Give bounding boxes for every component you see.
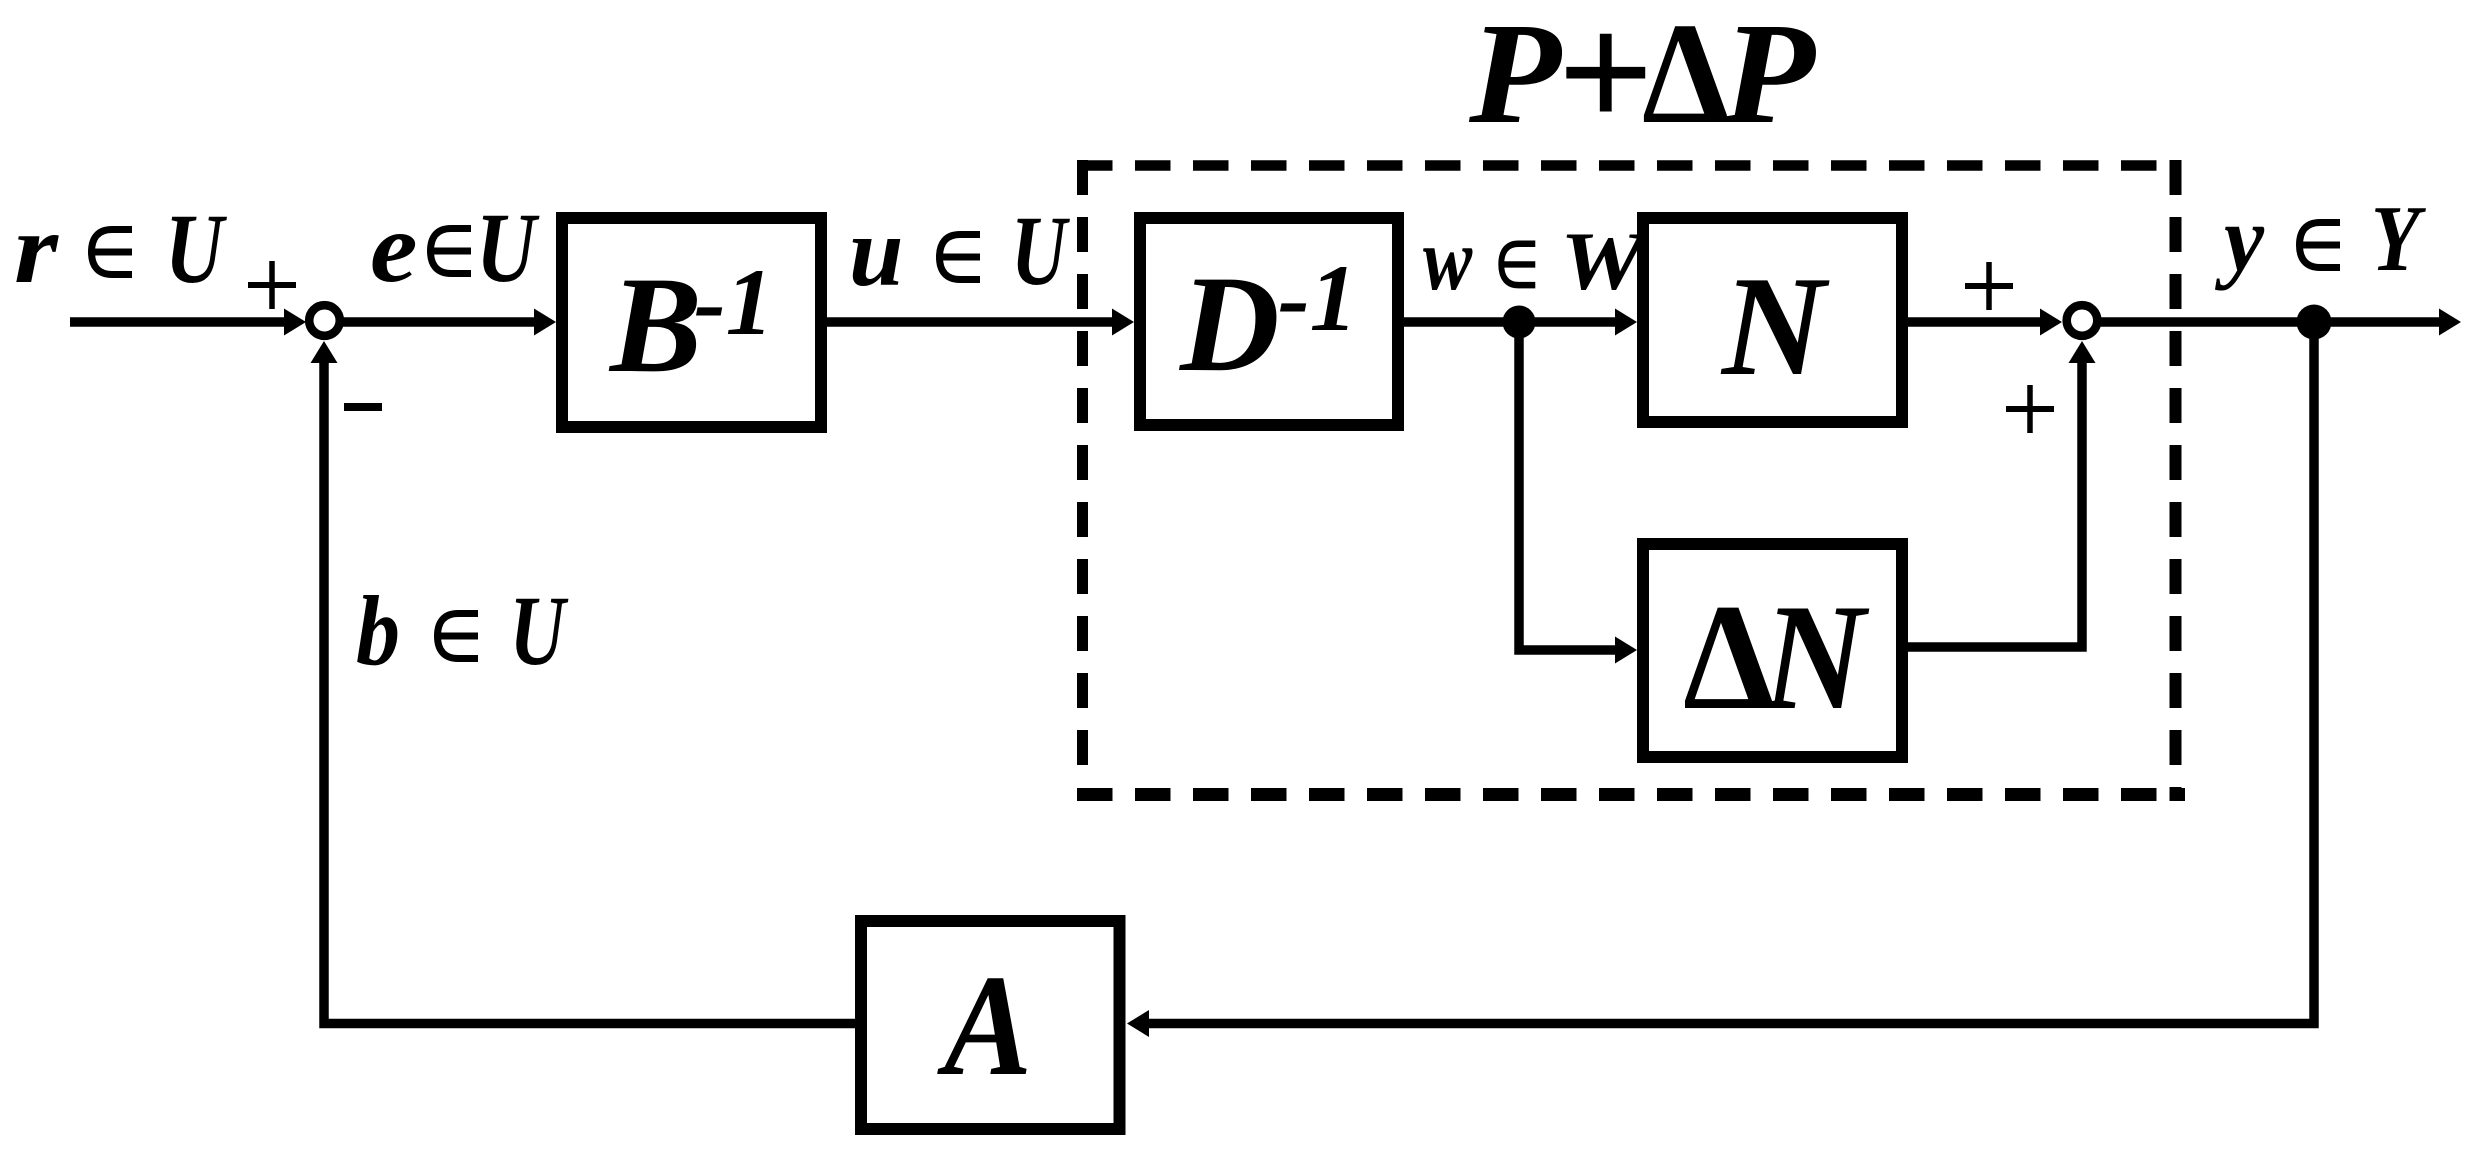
arrow up into junction 1 (311, 341, 338, 363)
block A (861, 921, 1120, 1129)
arrow up into junction 2 (2069, 341, 2096, 363)
wire input r (70, 317, 288, 327)
svg-text:U: U (510, 575, 570, 686)
block B^-1 (562, 218, 821, 427)
svg-text:-1: -1 (1278, 245, 1357, 351)
arrow into summing junction 2 (2040, 309, 2062, 336)
arrow into block A (1127, 1010, 1149, 1037)
svg-text:Y: Y (2371, 186, 2426, 291)
wire w: D to N (1404, 317, 1618, 327)
output arrowhead (2439, 309, 2461, 336)
svg-text:w: w (1423, 210, 1473, 309)
wire b: A output feedback to junction 1 (324, 362, 855, 1024)
svg-text:U: U (476, 192, 540, 303)
minus sign at summing junction 1 (344, 403, 382, 411)
svg-text:Δ: Δ (1683, 573, 1774, 741)
wire y branch down and left to A (1148, 322, 2314, 1024)
wire w branch down from node (1519, 322, 1618, 650)
wire u: B to D (827, 317, 1115, 327)
svg-text:B: B (608, 248, 702, 401)
arrow into block B (534, 309, 556, 336)
dashed uncertainty box P+dP (1077, 160, 2185, 801)
arrow into block dN (1615, 637, 1637, 664)
block N (1643, 218, 1902, 422)
wire e: junction1 to B (341, 317, 538, 327)
summing junction 2 (2067, 305, 2098, 336)
svg-text:D: D (1178, 247, 1280, 400)
plus sign at summing junction 1 (248, 261, 296, 309)
svg-text:N: N (1761, 572, 1870, 741)
wire y: junction 2 to output (2100, 317, 2441, 327)
plus sign below junction 2 (2006, 385, 2054, 433)
arrow into summing junction 1 (284, 309, 306, 336)
block dN (1643, 544, 1902, 757)
svg-text:e: e (370, 193, 417, 303)
wire N to summing junction 2 (1908, 317, 2042, 327)
svg-text:P: P (1721, 0, 1816, 154)
svg-text:+: + (1556, 0, 1653, 165)
svg-text:W: W (1560, 216, 1650, 307)
svg-text:r: r (14, 194, 60, 305)
block D^-1 (1140, 218, 1398, 425)
arrow into block N (1615, 309, 1637, 336)
plus sign above wire at junction 2 (1965, 262, 2013, 310)
node dot y (2297, 305, 2332, 340)
svg-text:-1: -1 (694, 249, 773, 355)
svg-text:U: U (1011, 195, 1071, 306)
svg-text:U: U (165, 193, 227, 304)
svg-text:A: A (936, 944, 1032, 1105)
svg-text:u: u (849, 197, 904, 307)
summing junction 1 (309, 305, 340, 336)
svg-text:b: b (356, 576, 400, 686)
arrow into block D (1112, 309, 1134, 336)
svg-text:P: P (1468, 0, 1563, 153)
svg-text:Δ: Δ (1642, 0, 1729, 154)
svg-text:N: N (1720, 247, 1830, 405)
node dot w (1503, 306, 1536, 339)
wire dN output up to junction 2 (1908, 360, 2082, 647)
